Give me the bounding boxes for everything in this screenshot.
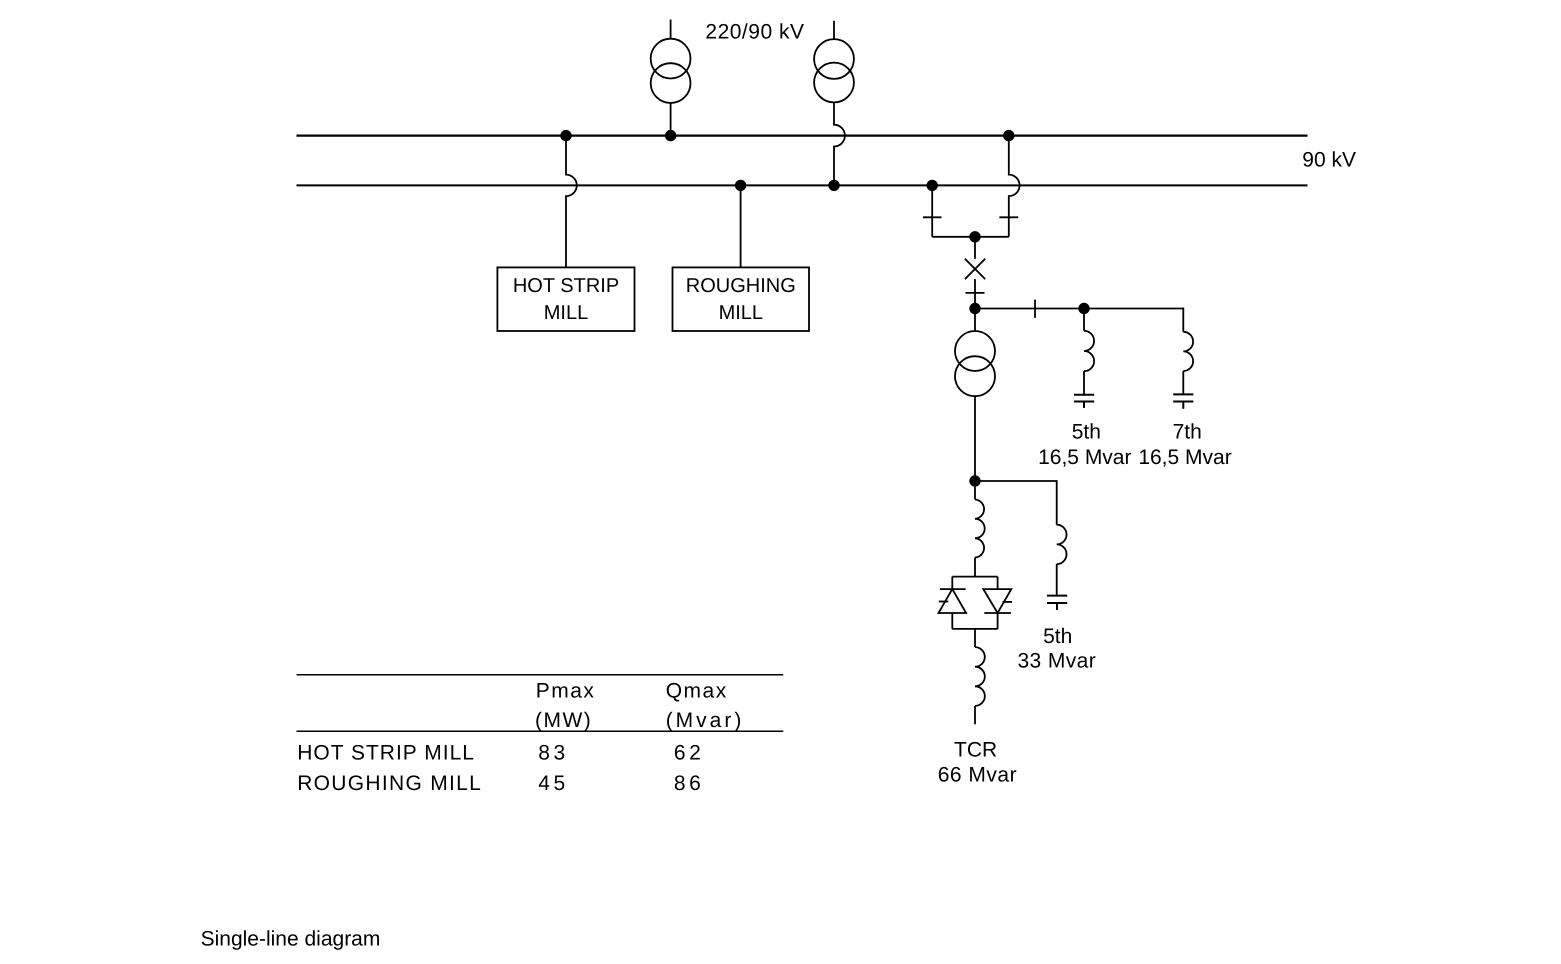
svg-text:HOT STRIP MILL: HOT STRIP MILL — [297, 742, 475, 765]
svg-text:ROUGHING MILL: ROUGHING MILL — [297, 772, 482, 795]
wire node to TCR reactor — [974, 481, 976, 500]
wire valve to lower reactor — [974, 629, 976, 647]
reactor L 5th filter — [1084, 331, 1094, 371]
svg-text:MILL: MILL — [544, 302, 588, 324]
table rule header bottom — [297, 730, 784, 732]
node SVC MV bus — [969, 303, 980, 314]
table row HOT STRIP MILL 83 62 — [297, 742, 704, 765]
wire bus1 tap down with hop over bus 2 — [1009, 136, 1020, 237]
node TCR bus — [969, 475, 980, 486]
svg-text:Qmax: Qmax — [666, 680, 728, 703]
svg-text:MILL: MILL — [719, 302, 763, 324]
capacitor C 5th filter — [1074, 395, 1094, 408]
wire reactor to capacitor — [1083, 371, 1085, 394]
label HOT STRIP MILL — [513, 275, 619, 324]
svg-text:Pmax: Pmax — [536, 680, 596, 703]
reactor L 5th 33 Mvar filter — [1057, 525, 1067, 564]
thyristor V1 (conducting up) — [940, 588, 966, 590]
wire joining both legs — [932, 236, 1009, 238]
wire TCR tail — [974, 706, 976, 724]
transformer T1 220/90 kV — [651, 20, 691, 104]
label 5th 16,5 Mvar — [1038, 421, 1131, 469]
svg-text:HOT STRIP: HOT STRIP — [513, 275, 619, 297]
wire T1 to bus 1 — [670, 103, 672, 136]
disconnector tick below breaker — [966, 292, 985, 294]
transformer T2 220/90 kV — [814, 21, 854, 103]
svg-text:16,5 Mvar: 16,5 Mvar — [1038, 446, 1131, 469]
thyristor V2 (conducting down) — [983, 589, 1011, 613]
wire to 7th filter reactor — [1182, 308, 1184, 332]
disconnector tick right leg — [999, 216, 1018, 218]
wire bus1 to HOT STRIP MILL with hop over bus 2 — [566, 136, 577, 268]
table header Pmax (MW) Qmax (Mvar) — [535, 680, 744, 732]
disconnector tick on filter feeder — [1034, 300, 1036, 318]
wire node to breaker — [974, 237, 976, 259]
svg-text:66 Mvar: 66 Mvar — [938, 763, 1017, 786]
svg-text:7th: 7th — [1173, 421, 1202, 444]
label TCR 66 Mvar — [938, 738, 1017, 786]
wire bus2 tap down — [931, 185, 933, 236]
svg-text:220/90 kV: 220/90 kV — [705, 20, 804, 43]
wire reactor to capacitor — [1182, 371, 1184, 394]
load box HOT STRIP MILL — [497, 267, 634, 331]
svg-text:16,5 Mvar: 16,5 Mvar — [1138, 446, 1231, 469]
svg-text:TCR: TCR — [954, 738, 997, 761]
wire to 5th filter reactor — [1083, 309, 1085, 331]
svg-text:(Mvar): (Mvar) — [666, 709, 745, 732]
wire T3 to TCR node — [974, 396, 976, 481]
node joined legs — [969, 231, 980, 242]
node T1/bus1 junction — [665, 130, 676, 141]
svg-text:45: 45 — [538, 772, 568, 795]
wire SVC bus horizontal to filters — [975, 308, 1183, 310]
svg-text:83: 83 — [538, 742, 568, 765]
node bus1 SVC tap — [1003, 130, 1014, 141]
svg-text:ROUGHING: ROUGHING — [686, 275, 796, 297]
reactor L 7th filter — [1183, 332, 1193, 371]
wire TCR node to 33 Mvar branch — [975, 481, 1057, 525]
wire bus2 to ROUGHING MILL — [740, 185, 742, 267]
svg-text:5th: 5th — [1072, 421, 1101, 444]
table rule top — [297, 674, 784, 676]
svg-text:90 kV: 90 kV — [1302, 149, 1356, 172]
wire reactor to thyristor valve — [974, 558, 976, 577]
load box ROUGHING MILL — [673, 267, 810, 331]
node bus2 roughing mill tap — [735, 180, 746, 191]
label 5th 33 Mvar — [1017, 625, 1096, 673]
capacitor C 7th filter — [1173, 394, 1193, 408]
node T2/bus2 junction — [828, 180, 839, 191]
wire T2 down with hop over bus 1 — [834, 102, 845, 185]
table row ROUGHING MILL 45 86 — [297, 772, 704, 795]
capacitor C 33 Mvar — [1047, 596, 1067, 610]
svg-text:Single-line diagram: Single-line diagram — [201, 928, 381, 951]
svg-text:5th: 5th — [1043, 625, 1072, 648]
svg-text:(MW): (MW) — [535, 709, 592, 732]
reactor L TCR lower — [975, 647, 985, 706]
svg-text:62: 62 — [674, 742, 704, 765]
bus 2 (90 kV busbar B) — [297, 184, 1308, 186]
svg-text:86: 86 — [674, 772, 704, 795]
label ROUGHING MILL — [686, 275, 796, 324]
bus 1 (90 kV busbar A) — [297, 135, 1308, 137]
label 7th 16,5 Mvar — [1138, 421, 1231, 469]
reactor L TCR upper — [975, 500, 985, 558]
wire reactor to capacitor — [1056, 564, 1058, 595]
node bus1 hot strip mill tap — [560, 130, 571, 141]
node 5th filter tap — [1078, 303, 1089, 314]
disconnector tick left leg — [923, 216, 942, 218]
node bus2 SVC tap — [927, 180, 938, 191]
thyristor valve (anti-parallel pair) — [939, 577, 1013, 629]
wire breaker to SVC node with disconnector tick — [974, 279, 976, 308]
wire SVC node to transformer T3 — [974, 309, 976, 332]
svg-text:33 Mvar: 33 Mvar — [1017, 650, 1096, 673]
circuit breaker X — [965, 259, 985, 279]
transformer T3 SVC coupling — [955, 331, 995, 396]
